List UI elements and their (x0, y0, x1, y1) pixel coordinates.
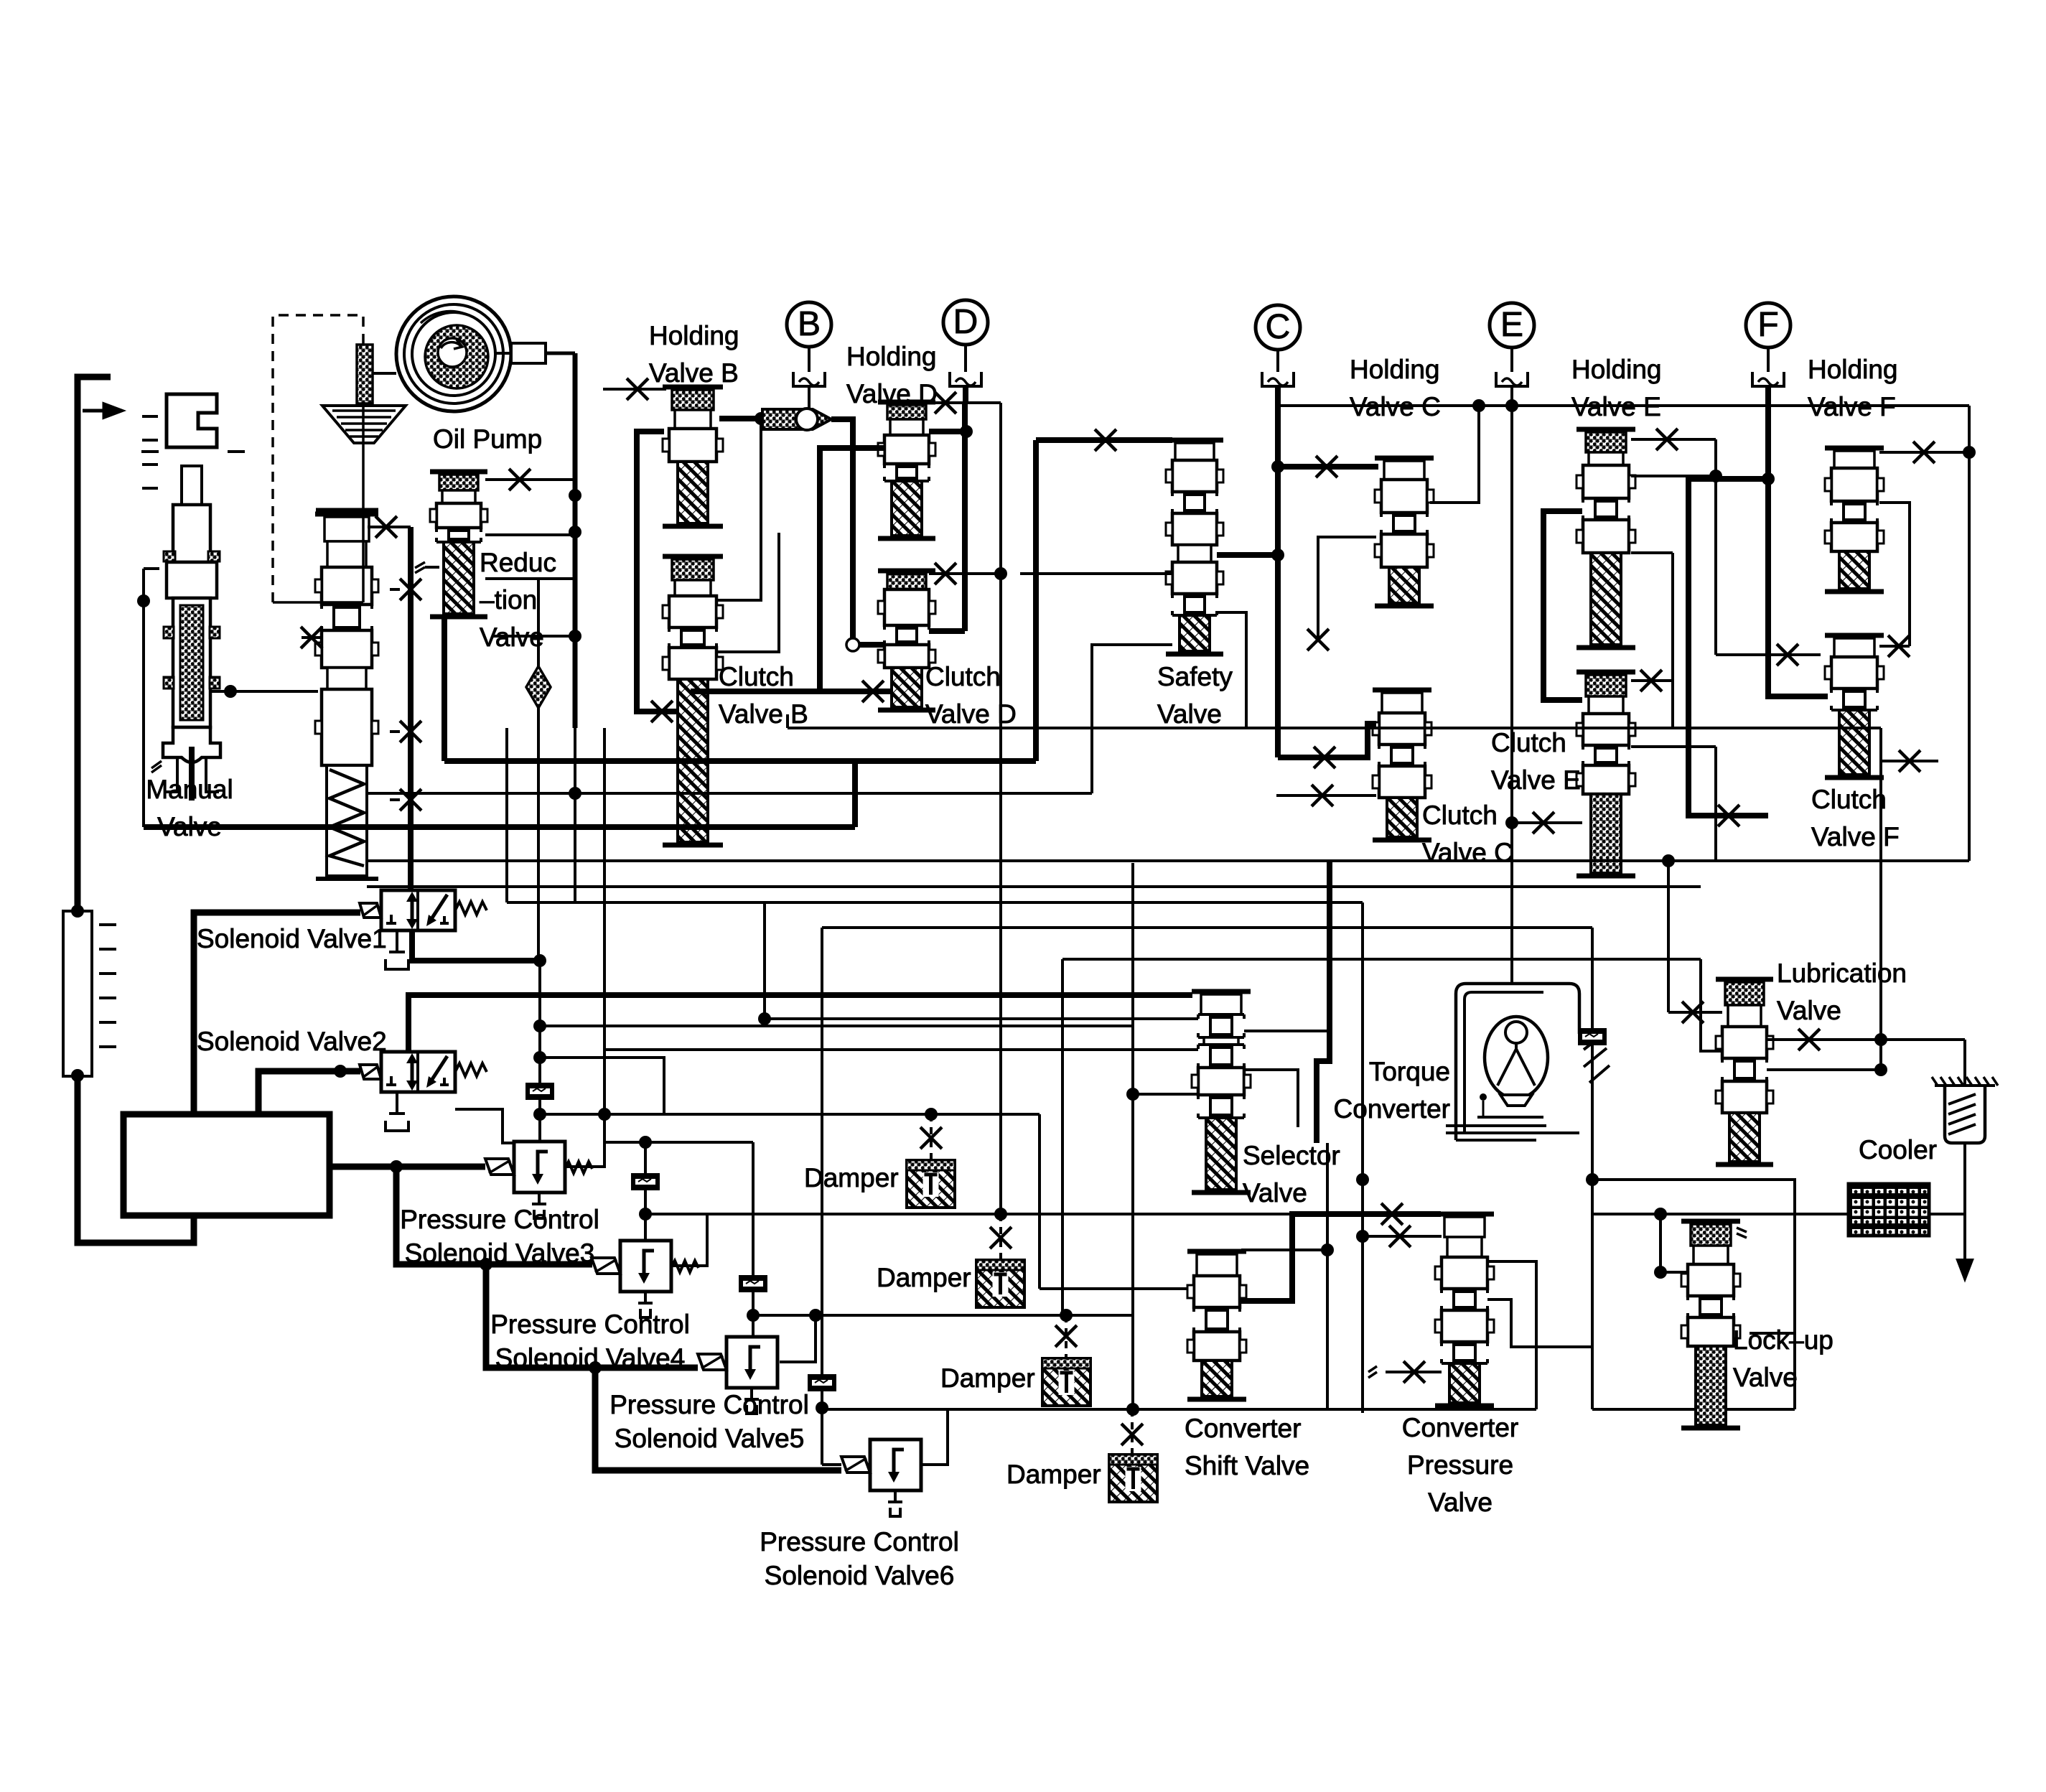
svg-text:Holding: Holding (1571, 355, 1661, 384)
svg-text:Pressure Control: Pressure Control (490, 1310, 690, 1339)
pcs6 top vertical (821, 1376, 823, 1465)
wire E to clutchF (1714, 476, 1717, 655)
node manual left (137, 594, 150, 607)
svg-text:Reduc: Reduc (480, 548, 556, 577)
holding valve B (663, 385, 723, 390)
node main riser b (569, 630, 581, 643)
cpv right ports (1487, 1261, 1536, 1409)
vertical 2218 low (1591, 928, 1594, 1409)
vertical 1578 (1131, 863, 1134, 1409)
cooler left line (1592, 1213, 1849, 1215)
node pcs4 topb (639, 1208, 652, 1221)
wire safety left mid (1020, 572, 1172, 575)
node sv2 feed (334, 1065, 347, 1078)
node pcs6 top (816, 1401, 828, 1414)
node lube low (1874, 1063, 1887, 1076)
pcs6 left port (822, 1463, 841, 1466)
bus y1832 (753, 1314, 1133, 1317)
wire clutch F right low (1879, 760, 1938, 762)
node y1199 (1662, 854, 1675, 867)
wire holding E cap X (1631, 438, 1716, 441)
svg-text:Valve C: Valve C (1422, 838, 1513, 867)
lube right out (1767, 1038, 1965, 1041)
wire clutch F cap right (1879, 645, 1910, 648)
node top of accumulator (71, 905, 84, 918)
svg-text:C: C (1266, 308, 1291, 346)
port circle C (1256, 305, 1300, 350)
svg-text:E: E (1500, 306, 1523, 344)
minidamper 2218 (1578, 1028, 1607, 1045)
vertical 1898 low (1361, 959, 1364, 1413)
damper 4 (1109, 1455, 1157, 1502)
node cooler left (1654, 1208, 1667, 1221)
strainer drop (1963, 1040, 1966, 1086)
node lube out (1874, 1033, 1887, 1046)
bus y1199 (367, 859, 1969, 862)
pressure control solenoid 3 (514, 1142, 565, 1193)
oil pump outlet (511, 343, 546, 363)
wire clutch E mid right (1631, 745, 1716, 748)
bus y1336 right (1062, 958, 1701, 961)
svg-text:Pressure Control: Pressure Control (400, 1205, 599, 1234)
wire holding D out thick (929, 429, 965, 434)
accumulator level dashes (99, 923, 116, 926)
lube low right (1767, 1068, 1881, 1071)
orifice reduction top (509, 469, 531, 490)
wire reduction right low (485, 577, 538, 580)
arrow inlet (83, 404, 121, 417)
bus y1060 thick (444, 758, 1036, 764)
reduction valve (430, 470, 487, 475)
svg-text:B: B (798, 305, 821, 343)
svg-text:Pressure Control: Pressure Control (760, 1527, 959, 1557)
filter diamond line (537, 579, 540, 961)
cpv left port2 (1386, 1371, 1442, 1373)
manual valve (167, 394, 217, 447)
node top bus C (1472, 399, 1485, 412)
thick D riser (962, 403, 968, 631)
wire sv1 out (412, 930, 540, 961)
cooler out arrow (1958, 1236, 1972, 1279)
wire reduction base (493, 635, 575, 638)
open node clutch D left (846, 638, 859, 651)
port E stem (1510, 347, 1513, 372)
pcs4 top vertical (644, 1142, 647, 1241)
node pcs3 feed (390, 1160, 403, 1173)
wire holding C right (1430, 406, 1479, 503)
svg-text:Converter: Converter (1334, 1094, 1450, 1124)
node pcs3 a (598, 1108, 611, 1121)
wire check valve out (831, 419, 853, 645)
lockup loop (1592, 1180, 1795, 1409)
C bus riser (1275, 406, 1281, 757)
svg-text:Valve D: Valve D (925, 699, 1017, 729)
node F capline (1963, 446, 1976, 459)
vertical 1852 thick (1317, 861, 1330, 1143)
bus y1473 (540, 1058, 664, 1116)
port D stem (964, 345, 967, 372)
pcs4 right port (671, 1214, 707, 1266)
wire holding D cap X (929, 401, 1001, 404)
svg-text:Damper: Damper (877, 1263, 971, 1292)
clutch valve B (663, 554, 723, 559)
damper 3 link (1065, 1315, 1068, 1358)
svg-text:D: D (953, 303, 978, 341)
node bottom of accumulator (71, 1069, 84, 1082)
damper 3 (1042, 1358, 1090, 1406)
right frame vertical (1968, 406, 1971, 861)
svg-text:Damper: Damper (804, 1163, 899, 1193)
filter diamond (526, 666, 551, 708)
wire E riser (1510, 406, 1513, 823)
port circle E (1490, 303, 1534, 347)
wire E loop thick (1543, 511, 1582, 700)
shift valve top right (1241, 1249, 1327, 1251)
holding valve E (1576, 427, 1635, 432)
node E bottom (1505, 816, 1518, 829)
wire C to clutch C (1278, 724, 1376, 757)
pcs3 right port (565, 1116, 604, 1167)
node damper2 branch (994, 1208, 1007, 1221)
wire F to clutch F (1768, 406, 1828, 696)
orifice main line2 (400, 789, 421, 811)
svg-text:Shift Valve: Shift Valve (1185, 1451, 1309, 1480)
damper 1 (907, 1160, 955, 1208)
node sv1 out (533, 954, 546, 967)
cooler (1849, 1184, 1929, 1236)
svg-text:Clutch: Clutch (925, 662, 1001, 691)
check valve line B (719, 416, 762, 421)
node damper1 branch (925, 1108, 938, 1121)
wire diamond top (538, 577, 575, 580)
wire clutch B lower right (716, 533, 779, 652)
bus y1691 (645, 1213, 1292, 1215)
node pcs4 feed (480, 1258, 492, 1271)
port F stem (1767, 347, 1770, 372)
port circle F (1746, 303, 1790, 347)
node pcs5 top (747, 1309, 760, 1322)
pcs thick bus (330, 1164, 485, 1170)
damper 2 link (999, 1214, 1002, 1260)
svg-text:Valve B: Valve B (649, 358, 739, 388)
pcs bus to 4 (396, 1167, 592, 1264)
port B bracket (793, 372, 825, 386)
port D bracket (950, 372, 981, 386)
node 1065 (758, 1012, 771, 1025)
wire holding F right (1879, 503, 1910, 646)
converter pressure valve (1435, 1212, 1494, 1217)
regulator valve (315, 512, 378, 517)
wire clutch C spring X (1276, 794, 1376, 797)
top bus line (1278, 404, 1969, 407)
svg-text:Valve D: Valve D (846, 379, 938, 409)
ECU box (123, 1114, 330, 1215)
node cpv 1898 (1356, 1230, 1369, 1243)
svg-text:Clutch: Clutch (719, 662, 794, 691)
wire F loop (1688, 479, 1768, 816)
svg-text:Solenoid Valve6: Solenoid Valve6 (765, 1561, 955, 1590)
wire regulator left port X (302, 636, 322, 639)
selector valve (1192, 989, 1251, 994)
node shift top (1321, 1243, 1334, 1256)
svg-text:Valve E: Valve E (1491, 765, 1581, 795)
wire left bus lower segment (78, 913, 360, 1243)
wire reduction right mid (485, 533, 575, 536)
holding valve F (1825, 446, 1884, 451)
wire safety spring port (1092, 645, 1172, 793)
wire sv2 out right (455, 1109, 540, 1143)
svg-text:Converter: Converter (1402, 1413, 1518, 1442)
bus y1591 (604, 1141, 753, 1144)
node 752 c (533, 1108, 546, 1121)
lockup valve (1681, 1219, 1740, 1224)
node 2218 1643 (1586, 1173, 1599, 1186)
svg-text:Converter: Converter (1185, 1414, 1301, 1443)
bus y1257 (507, 901, 1363, 904)
damper 2 (976, 1260, 1024, 1307)
orifice regulator top (375, 516, 397, 538)
wire clutch E cap X (1631, 679, 1673, 682)
regulator valve spring box (327, 765, 367, 876)
svg-text:F: F (1757, 306, 1778, 344)
svg-text:Pressure: Pressure (1407, 1450, 1513, 1480)
svg-text:Selector: Selector (1243, 1141, 1340, 1170)
node reduction right (569, 526, 581, 538)
svg-text:Holding: Holding (649, 321, 739, 350)
bus y1105 (367, 792, 1092, 795)
bus y1152 right riser (852, 761, 858, 827)
minidamper 1049 (739, 1275, 767, 1292)
node safety-C junction (1271, 549, 1284, 561)
node pcs4 top (639, 1136, 652, 1149)
vertical 1145 (821, 928, 823, 1376)
node F mid (1762, 472, 1775, 485)
solenoid valve 2 (381, 1052, 455, 1092)
bus y1292 (822, 926, 1592, 929)
clutch valve C (1373, 688, 1431, 693)
selector left port3 (1133, 1093, 1198, 1096)
node check valve in (755, 412, 767, 425)
svg-text:Valve: Valve (1733, 1363, 1798, 1392)
wire holding E mid right (1631, 551, 1673, 554)
vertical 1065 (763, 902, 766, 1019)
pcs5 right port (780, 1315, 816, 1362)
selector left port2 (604, 1048, 1198, 1051)
port C bracket (1262, 372, 1294, 386)
svg-text:Solenoid Valve1: Solenoid Valve1 (197, 924, 387, 953)
bus y1152 thick (144, 824, 855, 830)
strainer (1935, 1084, 1995, 1087)
clutch valve E (1576, 670, 1635, 675)
svg-text:Clutch: Clutch (1422, 801, 1498, 830)
wire holding F cap X (1879, 451, 1969, 454)
wire regulator top X to pressure line (368, 526, 411, 528)
wire sv2 feed (258, 1071, 360, 1114)
safety valve (1166, 438, 1223, 443)
svg-text:Solenoid Valve4: Solenoid Valve4 (495, 1343, 686, 1373)
port F bracket (1752, 372, 1784, 386)
svg-text:Damper: Damper (940, 1363, 1035, 1393)
vertical lube 2620 (1879, 1040, 1882, 1070)
port E bracket (1496, 372, 1528, 386)
manual valve tick marks (142, 415, 158, 418)
wire left supply bus vertical (78, 377, 111, 911)
wire manual to regulator (211, 690, 318, 693)
node pcs5 feed (589, 1361, 602, 1374)
oil pump suction strainer (357, 345, 373, 403)
svg-text:Valve: Valve (1777, 996, 1841, 1025)
main pressure riser (573, 353, 578, 728)
svg-text:Torque: Torque (1369, 1057, 1450, 1086)
safety feed riser (1033, 440, 1039, 761)
node damper4 branch (1126, 1403, 1139, 1416)
regulator valve top cap line (316, 508, 378, 512)
orifice main line3 (400, 721, 421, 742)
node clutch D cap line (994, 567, 1007, 580)
node pcs5 y1832b (809, 1309, 822, 1322)
svg-text:Valve B: Valve B (719, 699, 808, 729)
accumulator left rect (63, 911, 92, 1076)
svg-text:Damper: Damper (1006, 1460, 1101, 1489)
node selector port3 (1126, 1088, 1139, 1101)
wire clutch D right in (929, 628, 965, 634)
solenoid valve 1 (381, 890, 455, 930)
node main riser a (569, 489, 581, 502)
main pressure line down (408, 527, 414, 890)
wire holding B loop (637, 431, 678, 711)
bus y1429 (540, 1025, 1133, 1027)
holding valve D (878, 400, 935, 405)
orifice clutch D bottom feed (820, 689, 890, 694)
node lockup left (1654, 1266, 1667, 1279)
wire safety feed (1036, 437, 1172, 443)
manual valve bottom stem (189, 747, 195, 801)
port circle B (787, 302, 831, 347)
lube left port (1701, 959, 1722, 1051)
pcs feed vertical 752 (538, 961, 541, 1142)
svg-text:Oil Pump: Oil Pump (433, 424, 542, 454)
node holding D out (960, 425, 973, 438)
clutch valve F (1825, 633, 1884, 638)
pcs bus to 6 (595, 1368, 841, 1470)
pcs5 top vertical (752, 1142, 755, 1337)
minidamper 899 (631, 1173, 660, 1190)
wire holding E right upper (1631, 439, 1716, 476)
pressure control solenoid 4 (620, 1241, 671, 1292)
pressure control solenoid 6 (870, 1439, 921, 1490)
cpv left thin upper (1363, 1235, 1442, 1238)
minidamper 752 (525, 1083, 554, 1100)
selector right ports (1244, 957, 1330, 1031)
shift valve right thick (1241, 1214, 1441, 1301)
bus y1963 (822, 1408, 1536, 1411)
oil pump (396, 297, 511, 411)
pcs bus to 5 (486, 1264, 698, 1368)
wire reduction left port (425, 566, 439, 569)
svg-text:Valve: Valve (1157, 699, 1222, 729)
vertical 842 (603, 728, 606, 1143)
node manual-regulator (224, 685, 237, 698)
wire safety right out (1217, 552, 1278, 558)
pilot dashed box (273, 315, 363, 602)
svg-text:Holding: Holding (1350, 355, 1439, 384)
converter shift valve (1187, 1249, 1246, 1254)
svg-text:Clutch: Clutch (1491, 728, 1566, 757)
node C mid (1271, 460, 1284, 473)
orifice main line1 (400, 579, 421, 600)
cooler right line (1929, 1213, 1965, 1215)
torque converter (1456, 984, 1579, 1140)
damper 4 link (1131, 1409, 1134, 1455)
lockup frame bottom (1592, 1408, 1795, 1411)
wire B to D feed (691, 448, 884, 691)
svg-text:Solenoid Valve5: Solenoid Valve5 (615, 1424, 805, 1453)
bus y1014 (786, 714, 789, 728)
port C stem (1276, 350, 1279, 372)
wire clutch D cap X (929, 572, 1001, 575)
node 752 a (533, 1019, 546, 1032)
bus y1060 left riser (442, 617, 447, 761)
svg-text:Lock–up: Lock–up (1733, 1325, 1834, 1355)
node 752 b (533, 1051, 546, 1064)
wire safety right mid2 (1217, 612, 1246, 728)
wire clutch B right ports (716, 419, 761, 600)
wire manual left loop (144, 567, 159, 570)
vertical 1898 upper (1361, 902, 1364, 959)
lube top X (1668, 1011, 1722, 1014)
svg-text:Safety: Safety (1157, 662, 1233, 691)
port B stem (808, 347, 811, 372)
wire clutch C left thin (1318, 537, 1376, 640)
svg-text:Clutch: Clutch (1811, 785, 1887, 814)
lockup left port (1660, 1271, 1686, 1274)
pcs3 top port (538, 1116, 541, 1142)
vertical 1394 (999, 403, 1002, 1214)
lockup top tick (1737, 1228, 1747, 1238)
wire sv2 top riser (408, 995, 1192, 1052)
wire C to holding C (1278, 464, 1378, 470)
svg-text:Pressure Control: Pressure Control (609, 1390, 809, 1419)
node 1898 1643 (1356, 1173, 1369, 1186)
wire holding B top X (603, 388, 666, 391)
wire reduction top to main (485, 478, 575, 481)
check valve (762, 409, 831, 429)
strainer out (1963, 1143, 1966, 1236)
svg-text:Solenoid Valve2: Solenoid Valve2 (197, 1027, 387, 1056)
svg-text:Cooler: Cooler (1859, 1135, 1937, 1165)
svg-text:Valve F: Valve F (1811, 822, 1900, 851)
svg-text:Solenoid Valve3: Solenoid Valve3 (405, 1238, 595, 1268)
clutch valve D (878, 569, 935, 574)
pressure control solenoid 5 (727, 1337, 777, 1388)
node damper3 branch (1060, 1309, 1073, 1322)
svg-text:Valve: Valve (1428, 1488, 1493, 1517)
node y1105 (569, 787, 581, 800)
wire E to clutch E (1512, 821, 1582, 824)
port circle D (943, 300, 988, 345)
svg-text:Valve: Valve (1243, 1178, 1307, 1208)
bus y1235 (367, 885, 1701, 888)
svg-text:Holding: Holding (846, 342, 936, 371)
lubrication valve (1716, 977, 1773, 982)
vertical right 2620 (1879, 728, 1882, 1040)
holding valve C (1375, 456, 1434, 461)
minidamper 1145 (808, 1374, 836, 1391)
tc feed vertical (1510, 902, 1513, 985)
vertical 1849 (1326, 1143, 1329, 1409)
bus y1552 (540, 1113, 1040, 1116)
damper 1 link (930, 1114, 933, 1160)
